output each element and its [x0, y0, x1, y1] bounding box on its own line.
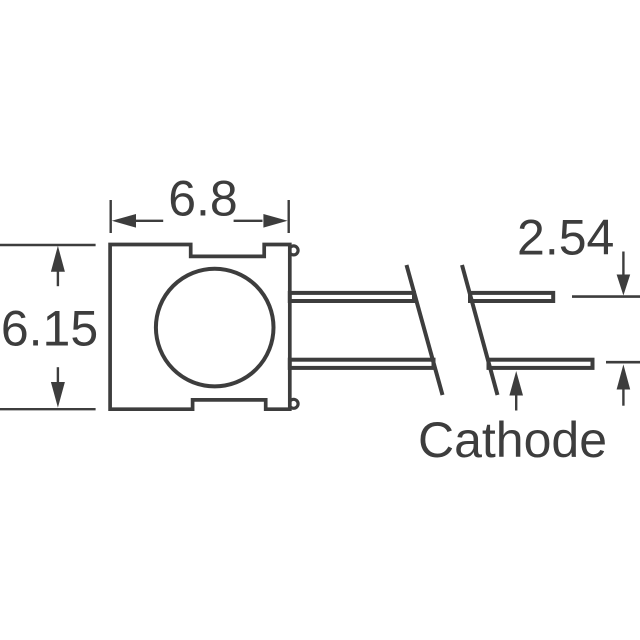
dimension 6.8 right extension line	[288, 200, 290, 233]
break mark diagonal 2	[462, 265, 498, 395]
break mark diagonal 1	[407, 265, 443, 395]
anode lead segment 2 (top)	[470, 293, 553, 301]
dimension 6.8 left extension line	[109, 200, 111, 233]
dimension 2.54 up arrow line	[622, 389, 624, 406]
LED lens circle	[156, 269, 274, 387]
dimension 2.54 bottom reference line	[606, 361, 640, 364]
dimension 2.54 top reference line	[572, 295, 640, 298]
cathode pointer line	[515, 395, 517, 411]
cathode lead segment 2 (bottom)	[489, 360, 593, 368]
cathode lead segment 1 (bottom)	[290, 360, 434, 368]
dimension 6.8 left arrowhead	[112, 214, 136, 228]
dimension 2.54 down arrowhead	[617, 275, 631, 296]
dimension 6.15 down arrowhead	[51, 382, 65, 408]
dimension 6.8 line left segment	[135, 220, 163, 222]
svg-text:Cathode: Cathode	[418, 412, 607, 468]
anode lead segment 1 (top)	[290, 293, 414, 301]
dimension 6.15 top extension line	[0, 244, 96, 246]
dimension 6.15 bottom extension line	[0, 408, 96, 410]
svg-text:6.15: 6.15	[1, 301, 98, 357]
svg-text:2.54: 2.54	[517, 210, 614, 266]
dimension 6.8 right arrowhead	[263, 214, 287, 228]
dimension 6.15 lower line segment	[57, 367, 59, 382]
mounting loop top-right	[289, 246, 298, 255]
mounting loop bottom-right	[289, 399, 298, 408]
dimension 2.54 up arrowhead	[617, 364, 631, 389]
dimension 6.15 upper line segment	[57, 271, 59, 286]
cathode pointer arrowhead	[509, 371, 523, 396]
dimension 6.8 line right segment	[234, 220, 263, 222]
dimension 2.54 down arrow line	[622, 252, 624, 276]
dimension 6.15 up arrowhead	[51, 246, 65, 272]
LED housing body outline	[110, 245, 290, 410]
svg-text:6.8: 6.8	[168, 171, 238, 227]
